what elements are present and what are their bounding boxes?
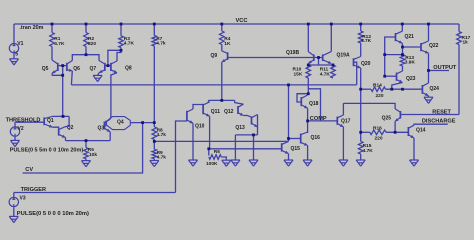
transistor Q22 <box>421 41 429 53</box>
transistor Q3 <box>104 119 110 132</box>
junction 36 <box>220 99 223 102</box>
wire Q10 base elbow <box>176 121 187 193</box>
wire ground stem a <box>234 135 236 160</box>
ground under Q17 <box>339 160 348 166</box>
wire R10-R11 top wire <box>308 64 333 66</box>
junction 26 <box>359 88 362 91</box>
wire tail bus2 <box>210 148 282 150</box>
transistor Q9 <box>222 51 228 62</box>
wire Q5-Q6 base junction down <box>62 66 64 117</box>
ground under R5 <box>82 161 91 167</box>
wire R12 top <box>360 24 362 31</box>
wire VCC rail <box>14 23 459 25</box>
junction 6 <box>330 23 333 26</box>
wire Q13 collector row <box>235 134 257 136</box>
svg-text:V2: V2 <box>18 126 24 132</box>
transistor Q21 <box>396 31 403 43</box>
ground under R9 <box>150 161 159 167</box>
wire R2 top <box>85 24 87 33</box>
wire Q11 emitter down <box>209 116 211 149</box>
wire crosscouple <box>385 54 403 56</box>
junction 17 <box>153 140 156 143</box>
wire Q22 base <box>403 46 422 48</box>
junction 30 <box>401 46 404 49</box>
wire Q7-Q8 base tie <box>105 65 111 67</box>
wire RESET <box>401 114 459 116</box>
junction 11 <box>61 64 64 67</box>
wire V1 bottom <box>13 53 15 58</box>
wire Q23 emitter down <box>392 83 403 90</box>
transistor Q14 <box>408 125 414 138</box>
svg-text:Q20: Q20 <box>361 61 371 67</box>
wire Q20base bus down to Q15 <box>288 85 290 141</box>
wire Q21 emitter to R13 <box>401 43 403 47</box>
transistor Q10 <box>187 109 193 123</box>
svg-text:Q17: Q17 <box>341 119 351 125</box>
wire Q16 emitter down <box>307 146 309 161</box>
ground under V3 <box>9 216 18 222</box>
resistor R8 <box>152 127 157 140</box>
junction 10 <box>85 53 88 56</box>
transistor Q5 <box>52 60 58 73</box>
svg-text:4.7K: 4.7K <box>124 40 135 46</box>
svg-text:Q1: Q1 <box>47 118 54 124</box>
wire R17 to RESET <box>458 45 460 115</box>
transistor Q13 <box>252 115 258 128</box>
svg-text:.tran 20m: .tran 20m <box>19 25 43 31</box>
ground under V2 <box>11 140 20 146</box>
svg-text:4.7K: 4.7K <box>54 41 65 47</box>
wire Q24 emitter stub <box>428 96 430 97</box>
svg-text:Q6: Q6 <box>73 66 80 72</box>
junction 15 <box>141 121 144 124</box>
junction 12 <box>107 64 110 67</box>
wire V2 top stub <box>14 122 16 127</box>
wire Q6 collector to bus <box>70 71 73 85</box>
svg-text:R11: R11 <box>320 67 329 73</box>
ground g235 <box>231 160 240 166</box>
wire V2 bottom <box>14 137 16 141</box>
wire R6 stub <box>208 149 210 156</box>
wire Q21 base column <box>385 37 396 76</box>
svg-text:Q8: Q8 <box>125 66 132 72</box>
svg-text:Q21: Q21 <box>405 34 415 40</box>
wire Q12 to Q13 <box>243 116 251 118</box>
wire Q10 emitter to ground <box>192 123 194 160</box>
wire R4 to Q9 <box>221 45 223 51</box>
svg-text:Q22: Q22 <box>429 43 439 49</box>
transistor Q2 <box>59 127 66 138</box>
resistor R10 <box>306 65 311 78</box>
junction 8 <box>401 23 404 26</box>
svg-text:Q19A: Q19A <box>337 53 350 59</box>
wire R16 left <box>361 131 370 133</box>
wire Q17 collector up <box>342 103 344 115</box>
wire R15 to ground <box>360 154 362 160</box>
wire R16 to Q14 base <box>386 131 409 133</box>
wire Q5 collector elbow <box>52 73 63 75</box>
voltage source V1 <box>9 44 18 53</box>
svg-text:Q15: Q15 <box>291 146 301 152</box>
wire Q2 emitter down <box>65 138 67 141</box>
transistor Q12 <box>238 104 243 115</box>
ground under R6 <box>222 160 231 166</box>
wire V3 bottom <box>13 207 15 216</box>
transistor Q19B <box>308 52 314 64</box>
resistor R16 <box>370 130 386 135</box>
junction 35 <box>252 134 255 137</box>
junction 14 <box>62 115 65 118</box>
wire R7 top <box>153 24 155 36</box>
svg-text:DISCHARGE: DISCHARGE <box>422 119 456 125</box>
svg-text:820: 820 <box>88 41 96 47</box>
junction 2 <box>120 23 123 26</box>
resistor R7 <box>152 36 157 47</box>
wire Q1c down <box>68 116 70 126</box>
wire Q20 base from bus <box>354 62 357 85</box>
transistor Q19A <box>323 52 332 64</box>
wire Q18 emitter down <box>307 108 309 133</box>
wire R14 left <box>361 88 371 90</box>
ground under Q16 <box>303 160 312 166</box>
wire Q3 base to Q4 <box>104 125 106 127</box>
wire T left down <box>209 100 210 102</box>
svg-text:Q24: Q24 <box>430 86 440 92</box>
junction 25 <box>306 120 309 123</box>
transistor Q6 <box>67 61 72 72</box>
svg-text:Q23: Q23 <box>406 76 416 82</box>
wire R4 top <box>221 24 223 31</box>
transistor Q18 <box>301 95 307 108</box>
wire Q8 collector down <box>111 73 117 117</box>
junction 31 <box>427 69 430 72</box>
transistor Q17 <box>337 115 343 127</box>
wire R3 to Q8 emitter <box>117 48 121 61</box>
transistor Q7 <box>99 61 105 73</box>
svg-text:Q4: Q4 <box>117 119 124 125</box>
junction 29 <box>383 75 386 78</box>
svg-text:4.7K: 4.7K <box>320 72 331 78</box>
junction 33 <box>390 88 393 91</box>
wire Q2 collector join <box>66 125 70 127</box>
voltage source V2 <box>10 127 19 136</box>
wire R13 to Q23 collector <box>402 66 404 71</box>
wire V3 top stub <box>13 193 15 197</box>
junction 20 <box>287 137 290 140</box>
resistor R6 <box>209 155 222 160</box>
wire Q20 emitter down to R15 <box>360 68 362 141</box>
wire Q10 collector to Q11 <box>193 105 203 110</box>
wire Q25 emitter down <box>394 121 396 132</box>
svg-text:4.7k: 4.7k <box>157 132 167 138</box>
transistor Q20 <box>354 57 361 69</box>
junction 23 <box>317 56 320 59</box>
svg-text:Q12: Q12 <box>224 109 234 115</box>
wire Q9 emitter down <box>221 62 223 100</box>
wire tail to R5 <box>85 141 87 148</box>
svg-text:Q16: Q16 <box>311 135 321 141</box>
svg-text:Q5: Q5 <box>42 66 49 72</box>
wire R13 top stub <box>402 47 404 55</box>
wire TRIGGER <box>14 192 176 194</box>
resistor R3 <box>119 36 124 48</box>
wire Q17 emitter down <box>342 127 344 160</box>
wire Q9 base to Q19 bases <box>228 57 323 59</box>
svg-text:Q7: Q7 <box>90 66 97 72</box>
wire R17 top <box>458 24 460 32</box>
svg-text:V3: V3 <box>20 195 26 201</box>
svg-text:Q18: Q18 <box>309 101 319 107</box>
resistor R13 <box>400 55 405 66</box>
wire Q7 collector to ground <box>98 73 99 76</box>
transistor Q23 <box>397 71 403 83</box>
svg-text:4.7k: 4.7k <box>156 40 166 46</box>
wire Q18 base loop <box>297 94 308 102</box>
wire bias bus <box>71 84 356 86</box>
svg-text:R14: R14 <box>373 82 382 88</box>
wire R7 to R8 <box>153 46 155 127</box>
voltage source V3 <box>9 197 18 206</box>
junction 24 <box>307 92 310 95</box>
wire Q19B emitter up <box>307 24 309 52</box>
wire THRESHOLD <box>15 121 44 123</box>
resistor R2 <box>84 33 89 47</box>
svg-text:Q14: Q14 <box>416 128 426 134</box>
junction 32 <box>394 131 397 134</box>
junction 22 <box>332 64 335 67</box>
wire R1 to Q5 emitter <box>51 47 53 61</box>
svg-text:Q10: Q10 <box>195 123 205 129</box>
transistor Q25 <box>395 109 400 122</box>
svg-text:R6: R6 <box>214 149 220 155</box>
wire Q7Q8 bases up to R3 <box>108 50 121 65</box>
junction 37 <box>85 139 88 142</box>
svg-text:100K: 100K <box>206 161 218 167</box>
resistor R15 <box>358 141 363 154</box>
svg-text:Q13: Q13 <box>235 125 245 131</box>
wire divider tap bus1 <box>154 140 288 142</box>
wire Q3 collector <box>109 117 112 119</box>
wire Q14 emitter down <box>413 138 415 160</box>
junction 34 <box>401 88 404 91</box>
ground under Q15 <box>284 160 293 166</box>
wire T right down <box>235 100 244 104</box>
ground under V1 <box>10 59 19 65</box>
wire Q1 collector row <box>53 115 70 117</box>
wire R10 bottom <box>307 78 309 95</box>
svg-text:Q11: Q11 <box>211 109 220 115</box>
junction 38 <box>120 49 123 52</box>
wire Q17c to Q25 <box>343 103 395 108</box>
resistor R1 <box>50 33 55 47</box>
svg-text:PULSE(0 5 0 0 0 10m 20m): PULSE(0 5 0 0 0 10m 20m) <box>17 211 89 217</box>
wire OUTPUT stub <box>429 70 450 72</box>
resistor R9 <box>152 149 157 159</box>
wire Q4 to divider tap <box>130 122 154 124</box>
wire R1 top <box>51 24 53 33</box>
wire R10 corner to comp column <box>308 89 320 121</box>
wire Q19 bases down <box>318 58 320 66</box>
svg-text:Q25: Q25 <box>382 115 392 121</box>
svg-text:10k: 10k <box>89 152 97 158</box>
resistor R11 <box>331 65 336 78</box>
svg-text:3.9K: 3.9K <box>405 59 416 65</box>
svg-text:R16: R16 <box>373 126 382 132</box>
svg-text:V1: V1 <box>17 41 23 47</box>
ground under Q7 <box>93 75 102 81</box>
svg-text:RESET: RESET <box>432 109 451 115</box>
junction 5 <box>307 23 310 26</box>
svg-text:4.7k: 4.7k <box>157 155 167 161</box>
svg-text:1K: 1K <box>224 41 231 47</box>
svg-text:VCC: VCC <box>236 18 248 24</box>
wire ground stem b <box>253 135 255 160</box>
junction 1 <box>85 23 88 26</box>
wire Q13 pins down <box>257 115 259 135</box>
wire R12 to Q20 <box>360 43 362 57</box>
junction 7 <box>359 23 362 26</box>
wire R3 top <box>120 24 122 36</box>
resistor R17 <box>457 32 462 45</box>
wire tail <box>66 140 111 142</box>
transistor Q1 <box>44 116 52 127</box>
wire Q15 emitter down <box>288 154 290 160</box>
junction 3 <box>153 23 156 26</box>
transistor Q11 <box>203 102 210 116</box>
junction 0 <box>51 23 54 26</box>
wire COMP to Q17 base <box>308 120 338 122</box>
junction 16 <box>153 121 156 124</box>
resistor R5 <box>84 148 89 159</box>
ground under Q24 <box>424 97 433 103</box>
junction 21 <box>307 64 310 67</box>
wire Q1 emitter to Q2 base <box>53 127 59 128</box>
resistor R14 <box>371 87 386 92</box>
svg-text:CV: CV <box>25 167 33 173</box>
wire R5 ground stub <box>85 159 87 161</box>
wire Q22 collector top <box>428 24 430 41</box>
svg-text:220: 220 <box>375 135 383 141</box>
wire R14 to Q24 base <box>386 88 423 90</box>
wire CV <box>23 123 143 173</box>
svg-text:1k: 1k <box>463 39 469 45</box>
junction 28 <box>383 53 386 56</box>
wire Q5 base tie <box>58 65 67 67</box>
svg-text:Q19B: Q19B <box>286 50 299 56</box>
transistor Q16 <box>301 132 308 146</box>
wire R6 to ground <box>221 157 226 160</box>
transistor Q8 <box>111 61 117 73</box>
ground under Q14 <box>410 160 419 166</box>
svg-text:4.7K: 4.7K <box>361 38 372 44</box>
resistor R4 <box>220 31 225 45</box>
ground under Q10 <box>189 160 198 166</box>
junction 13 <box>61 74 64 77</box>
wire Q21 collector top <box>401 24 403 31</box>
wire Q19A emitter up <box>330 24 332 52</box>
svg-text:Q9: Q9 <box>211 53 218 59</box>
wire Q23 base <box>385 75 397 77</box>
svg-text:220: 220 <box>376 93 384 99</box>
resistor R12 <box>358 31 363 43</box>
ground g254 <box>249 160 258 166</box>
wire R2 to emitters U <box>85 47 87 55</box>
svg-text:5: 5 <box>15 51 18 57</box>
svg-text:15K: 15K <box>294 72 303 78</box>
junction 4 <box>220 23 223 26</box>
wire pair top T <box>209 99 235 101</box>
junction 18 <box>207 147 210 150</box>
wire DISCHARGE <box>414 124 448 125</box>
transistor Q15 <box>282 141 289 153</box>
ground under R15 <box>356 160 365 166</box>
svg-text:PULSE(0 5 5m 0 0 10m 20m): PULSE(0 5 5m 0 0 10m 20m) <box>10 148 84 154</box>
wire Q6-Q7 emitter bus <box>72 55 99 61</box>
wire R8 to R9 node <box>153 139 155 149</box>
wire Q3 emitter down <box>109 132 111 141</box>
wire Q22 emitter / output column <box>428 53 430 83</box>
junction 27 <box>359 131 362 134</box>
transistor Q4 <box>106 117 130 130</box>
wire R9 to ground <box>153 159 155 161</box>
junction 9 <box>427 23 430 26</box>
wire V1 top <box>13 24 15 43</box>
svg-text:R5: R5 <box>88 147 94 153</box>
junction 19 <box>287 84 290 87</box>
transistor Q24 <box>422 83 428 96</box>
svg-text:4.7K: 4.7K <box>363 148 374 154</box>
svg-text:Q3: Q3 <box>98 126 105 132</box>
junction 39 <box>401 53 404 56</box>
wire Q16 base <box>289 138 301 140</box>
